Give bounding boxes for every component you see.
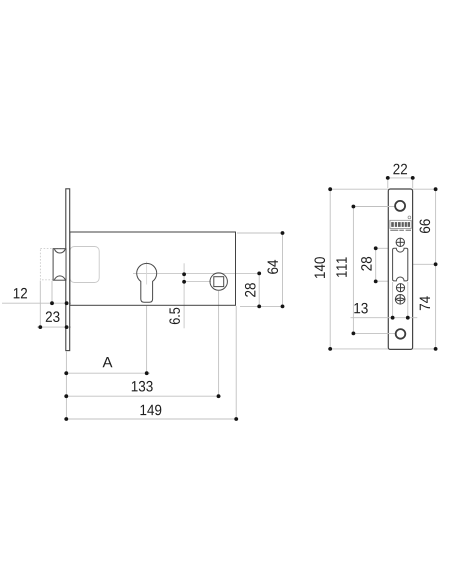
label 13 xyxy=(354,303,367,314)
latch inner body (light rounded rect) xyxy=(70,247,99,283)
dimension 111 line xyxy=(352,207,354,334)
extension bottom edge line xyxy=(328,348,438,350)
label A xyxy=(103,357,113,367)
label 66 xyxy=(420,219,431,233)
extension line faceplate down xyxy=(65,352,67,421)
extension line cylinder down xyxy=(146,306,148,375)
window bottom extension xyxy=(377,280,388,282)
22 extension left xyxy=(387,176,389,188)
top mounting hole xyxy=(395,201,405,211)
dimension 149 line xyxy=(64,418,239,420)
dimension 13 line xyxy=(351,317,418,319)
dimension 66-74 line xyxy=(435,189,437,349)
label 149 xyxy=(140,405,161,416)
faceplate (side view) xyxy=(66,189,70,351)
extension line latch face down xyxy=(51,281,53,305)
label 74 xyxy=(420,296,430,310)
centerline cylinder vertical xyxy=(146,262,148,285)
dimension 12 leader xyxy=(2,302,71,304)
registered mark xyxy=(408,216,411,219)
centerline cylinder axis xyxy=(133,272,259,274)
screw middle (phillips) xyxy=(396,284,404,292)
extension line 6.5 vertical xyxy=(183,263,185,328)
latch bolt xyxy=(53,249,66,281)
window side extensions down xyxy=(392,282,394,320)
extension line body right down xyxy=(235,306,237,421)
latch window (bone shaped) xyxy=(393,248,408,281)
label 22 xyxy=(393,164,407,174)
bottom mounting hole xyxy=(396,329,406,339)
label 111 xyxy=(336,257,346,276)
extension line latch nose down xyxy=(39,281,41,329)
lock body xyxy=(70,232,236,305)
label 140 xyxy=(314,257,325,278)
follower square spindle xyxy=(214,277,224,287)
dimension dots left view xyxy=(38,231,284,421)
screw lower (countersunk slotted) xyxy=(395,295,405,305)
label 28 xyxy=(361,257,372,271)
dimension A line xyxy=(64,372,150,374)
dimension 64 line vertical xyxy=(282,233,284,306)
extension line body top right xyxy=(237,232,285,234)
dimension 28 line vertical xyxy=(258,273,260,306)
follower hole circle xyxy=(210,273,227,290)
CISA logo box xyxy=(390,216,411,231)
22 extension right xyxy=(412,176,414,188)
small text under logo xyxy=(390,230,411,231)
dimension 23 leader xyxy=(37,326,71,328)
latch extended outline (dotted) xyxy=(40,249,66,280)
extension top edge line xyxy=(328,188,438,190)
window top extension xyxy=(377,247,388,249)
bottom hole centerline xyxy=(353,332,396,334)
extension line follower down xyxy=(218,291,220,398)
centerline follower axis xyxy=(184,281,211,283)
dimension 133 line xyxy=(64,395,221,397)
extension 66-74 split xyxy=(413,263,438,265)
extension line body bottom right xyxy=(240,305,285,307)
label 64 xyxy=(267,260,278,274)
faceplate front outline xyxy=(388,189,412,349)
label 28 xyxy=(245,283,256,297)
screw top (phillips) xyxy=(396,238,404,246)
label 6.5 xyxy=(169,308,180,324)
dimension 140 line xyxy=(329,189,331,349)
label 12 xyxy=(14,288,27,298)
dimension 22 line xyxy=(386,177,416,179)
cylinder hole (euro profile) xyxy=(137,263,157,302)
dimension dots right view xyxy=(328,176,437,351)
dimension 28 line right view xyxy=(375,248,377,281)
label 133 xyxy=(132,381,153,392)
top hole centerline xyxy=(353,206,396,208)
label 23 xyxy=(46,311,60,322)
